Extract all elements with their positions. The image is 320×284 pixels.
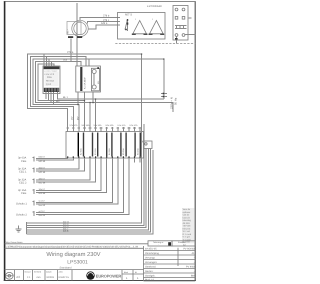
svg-text:Voor de: Voor de — [183, 208, 191, 211]
svg-text:sc2 57: sc2 57 — [39, 210, 46, 213]
svg-text:K3 32A: K3 32A — [94, 148, 97, 155]
svg-text:9/2003: 9/2003 — [47, 276, 55, 279]
bottom row cells — [14, 270, 143, 281]
svg-text:Eenheid: Eenheid — [34, 270, 41, 273]
ground symbol — [16, 225, 22, 231]
svg-text:N32 58: N32 58 — [39, 182, 47, 185]
svg-text:RC 0.5A: RC 0.5A — [46, 80, 54, 83]
terminal X1 — [33, 157, 35, 162]
svg-text:Schuko 1: Schuko 1 — [16, 202, 27, 205]
svg-text:LPS3001: LPS3001 — [67, 259, 88, 265]
wire wrap w2 — [31, 57, 74, 128]
svg-text:58a 58b: 58a 58b — [82, 124, 91, 127]
svg-text:Gezien:: Gezien: — [145, 270, 154, 273]
wire Schuko2 row L — [36, 158, 123, 213]
wire Schuko1 row L — [36, 158, 112, 202]
wire wrap w3 — [33, 59, 79, 127]
svg-text:E1607.15: E1607.15 — [59, 276, 70, 279]
wire Schuko1 row N — [36, 158, 118, 204]
svg-text:32b 57: 32b 57 — [39, 177, 46, 180]
wire 63A row N — [36, 158, 73, 160]
title block right table — [144, 248, 196, 282]
svg-text:CEE: CEE — [21, 192, 27, 195]
svg-text:Goedgek.: Goedgek. — [145, 275, 156, 278]
Europower logo — [86, 271, 121, 279]
svg-text:32a 57: 32a 57 — [39, 167, 46, 170]
wire top bus 278a — [44, 51, 142, 54]
svg-text:Blad: 1/1: Blad: 1/1 — [145, 278, 155, 281]
wire Schuko2 row N — [36, 158, 129, 214]
relay K4 — [106, 133, 113, 157]
bottom lamp wires group — [27, 54, 154, 234]
svg-text:49-3EU-05: 49-3EU-05 — [145, 248, 157, 251]
svg-text:M1~: M1~ — [67, 28, 70, 34]
svg-text:50 Hz: 50 Hz — [174, 97, 178, 105]
svg-text:606 B: 606 B — [63, 230, 69, 233]
outlet row 3p 63A CEE — [18, 157, 27, 163]
controller A1 (logic module) — [43, 66, 60, 94]
terminal X6 — [33, 211, 35, 216]
relay K3 — [92, 133, 99, 157]
svg-text:CEE: CEE — [21, 160, 27, 163]
svg-text:Artnr.: Artnr. — [59, 270, 64, 273]
svg-text:16a 57: 16a 57 — [39, 188, 46, 191]
svg-text:K4 32A: K4 32A — [108, 148, 111, 155]
auxiliary box right of relay strip — [141, 124, 152, 149]
svg-text:Wijz. Datum Naam: Wijz. Datum Naam — [6, 241, 23, 244]
wire controller bottom stubs — [46, 92, 164, 105]
svg-text:Nsc 58: Nsc 58 — [39, 204, 46, 207]
wire motor drop to contactor — [70, 39, 72, 62]
outlet row 3p 32A CEE 1 — [18, 168, 27, 174]
svg-text:-05-V03: -05-V03 — [183, 225, 192, 228]
wire 278c motor to heater — [88, 19, 121, 24]
wire 16A row N — [36, 158, 107, 192]
relay K5 — [120, 133, 127, 157]
wire drop pair with labels a57 b57 — [71, 99, 96, 127]
outlet row 3p 16A CEE — [18, 189, 27, 195]
wire spare stubs — [134, 158, 136, 163]
staircase wires CEE rows — [33, 156, 141, 218]
wire 63A row L — [36, 157, 68, 159]
title block header cells — [148, 241, 195, 247]
dashed compartment boundary — [115, 43, 196, 45]
wire motor drop 2 — [76, 39, 78, 67]
wire vertical feed to motor M1 — [76, 3, 78, 66]
svg-text:K6 16A: K6 16A — [136, 148, 139, 155]
terminal X5 — [33, 201, 35, 206]
svg-text:Omschrijving: Omschrijving — [145, 252, 159, 255]
svg-text:Standaard: Standaard — [60, 267, 73, 270]
terminal X2 — [33, 168, 35, 173]
motor M1 — [67, 20, 89, 38]
svg-text:CEE 2: CEE 2 — [19, 182, 27, 185]
svg-text:278 a: 278 a — [67, 51, 74, 54]
projection symbol logo — [5, 272, 13, 279]
relay K6 — [134, 133, 141, 157]
relay K2 — [78, 133, 85, 157]
svg-text:sc1 57: sc1 57 — [39, 200, 46, 203]
wire bus to contactor — [47, 57, 90, 67]
wire contactor bottom drops — [78, 92, 93, 105]
svg-text:Blad: Blad — [124, 271, 128, 274]
title block — [5, 241, 196, 281]
svg-text:Tekening nr.: Tekening nr. — [153, 241, 164, 244]
svg-text:van de: van de — [183, 214, 190, 217]
svg-text:L:\EPRO\EPS\europower-tekening: L:\EPRO\EPS\europower-tekeningen\nieuw\S… — [6, 246, 138, 249]
svg-text:Nsc 58: Nsc 58 — [39, 214, 46, 217]
svg-text:PV 9/2003: PV 9/2003 — [183, 248, 195, 251]
wire 32A-1 row N — [36, 158, 84, 171]
heating element R2 (delta) — [149, 18, 165, 35]
wire lamp 6 — [27, 150, 154, 234]
svg-text:L1 N 1 2 3: L1 N 1 2 3 — [45, 73, 55, 76]
svg-text:Schaal: Schaal — [25, 270, 31, 273]
wire 278b motor to heater — [80, 15, 120, 21]
wire lamp 5 — [27, 149, 151, 233]
svg-text:CEE 1: CEE 1 — [19, 171, 27, 174]
contactor K1 — [76, 66, 101, 92]
svg-text:63a 57: 63a 57 — [39, 156, 46, 159]
wire lamp 4 — [27, 149, 149, 230]
svg-text:230V: 230V — [47, 76, 52, 79]
svg-text:607 S: 607 S — [125, 14, 132, 17]
svg-text:tekening: tekening — [183, 219, 192, 222]
wire lamp 1 — [27, 54, 142, 223]
border frame — [4, 1, 196, 281]
svg-text:BM: BM — [191, 275, 195, 278]
svg-text:59a 59b: 59a 59b — [94, 124, 103, 127]
svg-text:BN: BN — [56, 100, 60, 103]
wire lamp 2 — [27, 149, 144, 226]
relay strip box — [66, 132, 144, 159]
heating element R1 (delta) — [132, 18, 148, 35]
wire 32A-1 row L — [36, 158, 79, 169]
wire 16A row L — [36, 158, 101, 191]
svg-text:kast zie: kast zie — [183, 216, 191, 219]
relay strip bottom terminals — [67, 156, 141, 158]
wire wrap w1 around controller — [28, 54, 68, 127]
notes text — [182, 208, 194, 243]
svg-text:Wiring diagram 230V: Wiring diagram 230V — [46, 251, 100, 258]
svg-text:K2 63A: K2 63A — [80, 148, 83, 155]
outlet row 3p 32A CEE 2 — [18, 178, 27, 184]
svg-text:Datum: Datum — [46, 270, 52, 273]
wire right vertical to supply terminal — [49, 59, 164, 99]
svg-text:49-3EU: 49-3EU — [183, 222, 191, 225]
ground wire — [26, 222, 28, 234]
wire 649a motor to heater — [89, 22, 121, 29]
wire wrap w5 / supply line — [38, 64, 84, 127]
supply terminal X0 230V — [161, 93, 178, 109]
svg-text:L1/TIPA/A38: L1/TIPA/A38 — [147, 5, 162, 8]
svg-text:Vervangen:: Vervangen: — [145, 261, 157, 264]
svg-text:mm: mm — [37, 276, 41, 279]
svg-text:Schuko 2: Schuko 2 — [16, 214, 27, 217]
wire 32A-2 row N — [36, 158, 96, 182]
svg-text:278 b: 278 b — [103, 15, 110, 18]
svg-text:Vervangt:: Vervangt: — [145, 257, 155, 260]
svg-text:G = grn: G = grn — [183, 236, 191, 239]
svg-text:K5 16A: K5 16A — [122, 148, 125, 155]
symbol legend box top right — [173, 6, 196, 44]
notes text block right side — [77, 53, 194, 243]
svg-text:62a 62b: 62a 62b — [130, 124, 139, 127]
svg-text:PV 9/03: PV 9/03 — [186, 266, 195, 269]
svg-text:R = rood: R = rood — [183, 233, 192, 236]
svg-text:A3: A3 — [16, 275, 20, 279]
svg-text:649 a: 649 a — [101, 22, 108, 25]
svg-text:Getekend:: Getekend: — [145, 266, 156, 269]
wire lamp 3 — [27, 149, 147, 228]
title block frame — [5, 244, 178, 281]
svg-text:57a 57b: 57a 57b — [70, 124, 79, 127]
svg-text:Kleuren:: Kleuren: — [183, 227, 192, 230]
wire wrap w4 / long 230V line — [36, 62, 173, 113]
svg-text:Formaat: Formaat — [178, 241, 186, 244]
heater enclosure box — [118, 13, 166, 40]
svg-text:61a 61b: 61a 61b — [118, 124, 127, 127]
terminal X4 — [33, 189, 35, 194]
wire 32A-2 row L — [36, 158, 90, 180]
svg-text:N63 58: N63 58 — [39, 160, 47, 163]
svg-text:60a 60b: 60a 60b — [106, 124, 115, 127]
connector row terminal ticks — [66, 127, 141, 132]
svg-text:N16 58: N16 58 — [39, 192, 47, 195]
svg-text:K1 9A 4kW: K1 9A 4kW — [84, 77, 87, 89]
svg-text:W = wit: W = wit — [183, 230, 191, 233]
svg-text:opbouw: opbouw — [183, 211, 191, 214]
svg-text:Q 1/2: Q 1/2 — [46, 83, 52, 86]
terminal X3 — [33, 178, 35, 183]
switch S1 inside heater box — [125, 19, 128, 31]
connector row labels above relay strip — [70, 124, 139, 127]
junction dots — [77, 53, 164, 105]
svg-text:EUROPOWER: EUROPOWER — [96, 273, 122, 278]
svg-text:N32 58: N32 58 — [39, 171, 47, 174]
